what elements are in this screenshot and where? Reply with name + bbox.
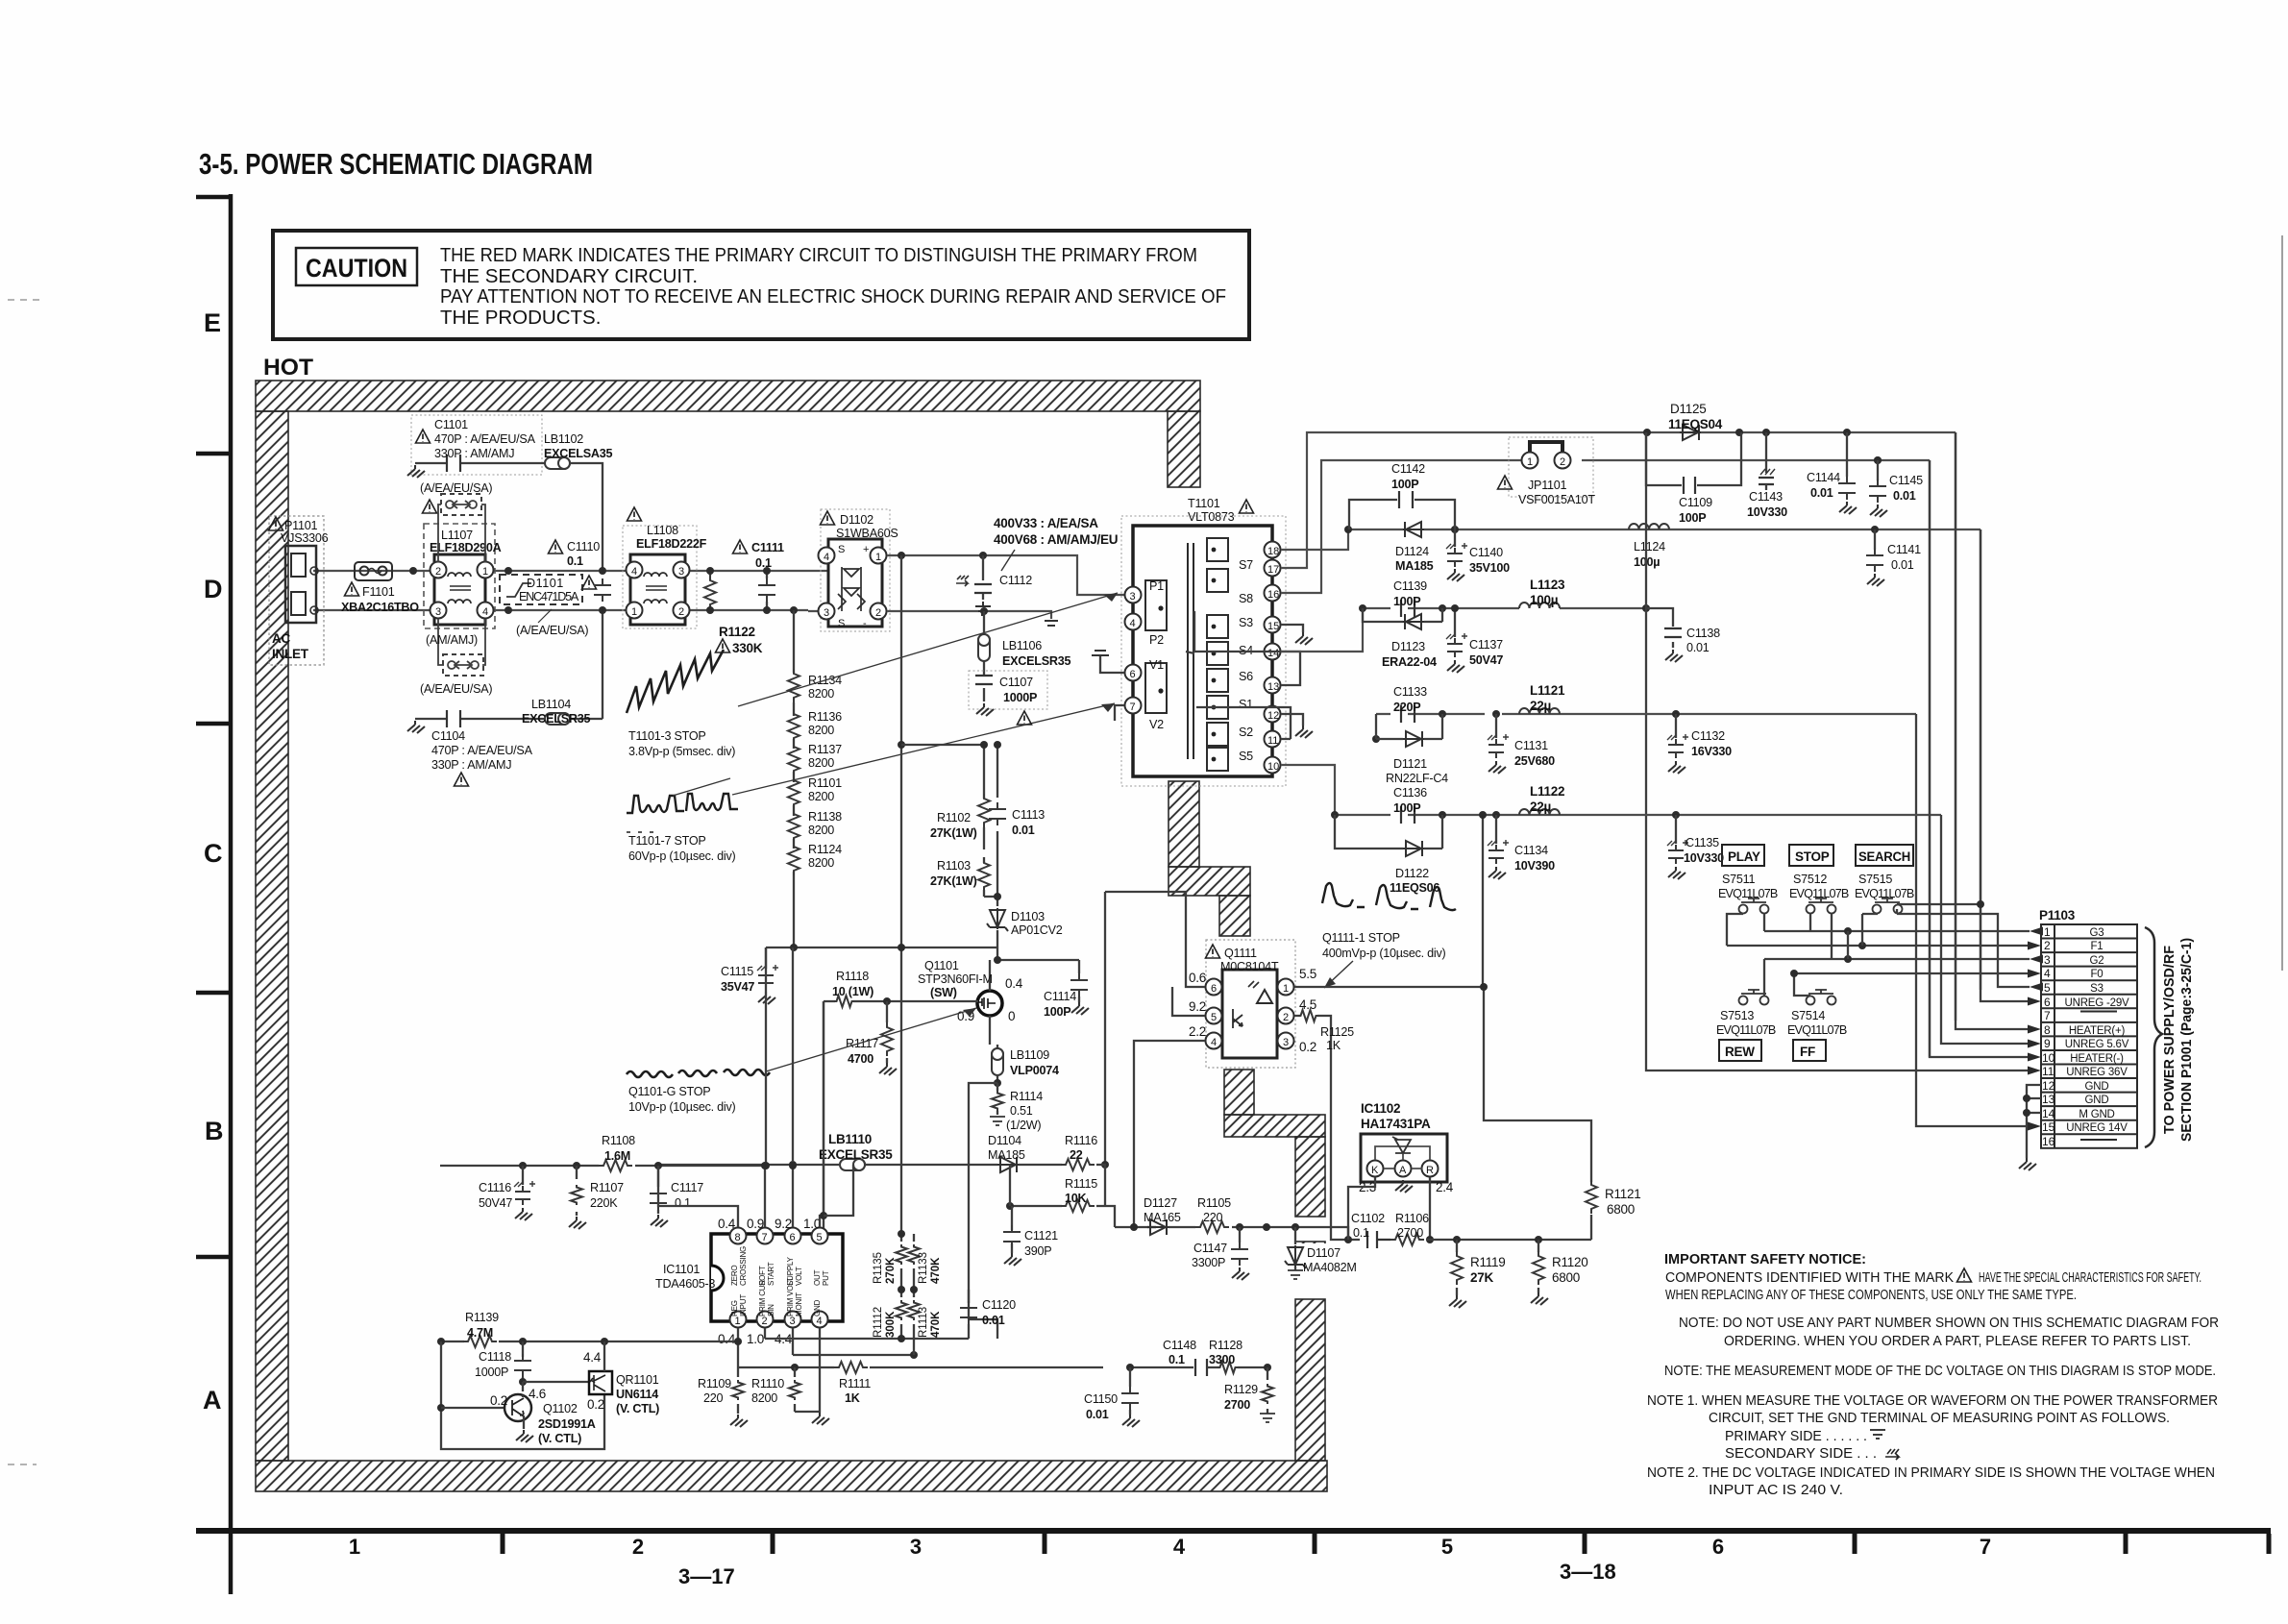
svg-text:PAY ATTENTION NOT TO RECEIVE A: PAY ATTENTION NOT TO RECEIVE AN ELECTRIC… [440,285,1226,308]
wire opto pin4 into hot area [1105,1041,1205,1227]
svg-text:NOTE: THE MEASUREMENT MODE OF: NOTE: THE MEASUREMENT MODE OF THE DC VOL… [1664,1364,2216,1379]
wire UNREG36V long vertical [1646,432,2030,1070]
wire top rail y986 [766,947,1079,960]
svg-text:MA185: MA185 [1395,559,1434,573]
svg-text:1.0: 1.0 [803,1217,821,1231]
svg-text:REG: REG [730,1300,739,1316]
svg-text:CIRCUIT, SET THE GND TERMINAL: CIRCUIT, SET THE GND TERMINAL OF MEASURI… [1709,1411,2170,1426]
svg-text:50V47: 50V47 [479,1196,512,1210]
resistor R1119 [1456,1240,1458,1295]
wire rail A +top from pin17 [1281,432,1956,568]
wire pin3 prim volt [793,1328,914,1355]
svg-text:R1108: R1108 [602,1134,635,1147]
svg-text:220: 220 [1203,1211,1223,1224]
connector brace [2145,927,2162,1147]
svg-text:0.2: 0.2 [587,1397,604,1412]
capacitor C1139 [1401,600,1415,617]
wire pin11 tap S2 [1196,707,1291,739]
wire pin5 up to gate rail [820,1001,824,1227]
svg-text:(V. CTL): (V. CTL) [616,1402,659,1415]
wire rail A turn down [1955,432,1956,1021]
resistors R1112 R1113 [901,1290,914,1349]
secondary winding boxes [1207,538,1228,771]
registration dashes [8,300,40,1464]
svg-text:C1118: C1118 [479,1350,511,1364]
svg-text:0.01: 0.01 [1686,641,1710,654]
svg-text:C1147: C1147 [1193,1242,1227,1255]
svg-text:3: 3 [2044,953,2051,967]
svg-text:10Vp-p (10µsec. div): 10Vp-p (10µsec. div) [628,1100,736,1114]
svg-text:ZERO: ZERO [730,1266,739,1286]
wire T1101 V1 ground [1100,655,1124,673]
svg-text:R1124: R1124 [808,843,842,856]
svg-text:S7515: S7515 [1858,873,1892,886]
svg-text:25V680: 25V680 [1514,754,1555,768]
svg-text:R1122: R1122 [719,625,755,639]
svg-text:R1129: R1129 [1224,1383,1258,1396]
svg-text:T1101-7 STOP: T1101-7 STOP [628,834,706,848]
diode D1104 [997,1157,1019,1172]
svg-text:M0C8104T: M0C8104T [1220,960,1279,973]
svg-text:L1124: L1124 [1634,540,1665,554]
inductor L1124 [1629,524,1669,529]
svg-text:VLT0873: VLT0873 [1188,510,1235,524]
svg-text:Q1102: Q1102 [543,1402,578,1415]
wire rail B vertical to pin10 [1930,460,2030,1057]
capacitor C1134 electrolytic [1495,815,1497,844]
svg-text:2: 2 [2044,939,2051,952]
caution inner label box [296,248,417,285]
svg-text:8200: 8200 [751,1391,777,1405]
svg-text:0.4: 0.4 [718,1217,736,1231]
pins left [1125,587,1142,603]
svg-text:XBA2C16TBO: XBA2C16TBO [341,601,419,614]
svg-text:CAUTION: CAUTION [306,254,407,283]
pointer line T1101-3 to pin 3 [738,593,1118,706]
svg-text:TO POWER SUPPLY/OSD/RF: TO POWER SUPPLY/OSD/RF [2162,946,2177,1134]
svg-text:0.01: 0.01 [982,1314,1005,1327]
connector P1101 (AC inlet) [269,516,324,665]
svg-text:R1125: R1125 [1320,1025,1354,1039]
wire rail C vertical to switches [1897,529,2030,1001]
svg-text:C1102: C1102 [1351,1212,1385,1225]
svg-text:1: 1 [1527,456,1533,468]
svg-text:THE SECONDARY CIRCUIT.: THE SECONDARY CIRCUIT. [440,265,698,287]
capacitor C1120 [968,1290,970,1303]
wire bottom row y1423 [738,1366,1209,1368]
resistor R1117 [886,1001,888,1063]
capacitor C1114 [1078,960,1080,973]
svg-text:D1104: D1104 [988,1134,1021,1147]
svg-text:FF: FF [1800,1045,1815,1059]
svg-text:C1144: C1144 [1807,471,1840,484]
svg-text:HAVE THE SPECIAL CHARACTERISTI: HAVE THE SPECIAL CHARACTERISTICS FOR SAF… [1979,1270,2202,1286]
svg-text:START: START [767,1262,775,1286]
svg-text:LB1110: LB1110 [828,1132,872,1146]
svg-text:R1115: R1115 [1065,1177,1097,1191]
svg-text:7: 7 [1130,701,1136,713]
svg-text:B: B [205,1117,224,1145]
svg-text:14: 14 [1267,648,1279,659]
wire switch to pin3 G2 [1764,959,2030,996]
wire pin7 up [764,1166,766,1227]
diode D1123 branch [1363,608,1442,622]
svg-text:17: 17 [1267,564,1279,576]
capacitor C1137 electrolytic [1454,608,1456,637]
svg-text:R1107: R1107 [590,1181,624,1194]
svg-text:4: 4 [631,566,637,578]
svg-text:P2: P2 [1149,633,1164,647]
svg-text:6800: 6800 [1607,1202,1635,1217]
svg-text:6: 6 [2044,996,2051,1009]
svg-text:C1101: C1101 [434,418,468,431]
svg-text:6800: 6800 [1552,1270,1580,1285]
svg-text:A: A [1399,1165,1407,1176]
svg-text:10V330: 10V330 [1747,505,1787,519]
svg-text:(A/EA/EU/SA): (A/EA/EU/SA) [420,682,492,696]
svg-text:PRIM VOLT: PRIM VOLT [786,1277,795,1316]
diode D1125 [1680,425,1701,440]
svg-text:ENC471D5A: ENC471D5A [519,590,579,603]
capacitor C1147 [1239,1227,1241,1243]
svg-text:4: 4 [1130,618,1136,629]
svg-text:HEATER(+): HEATER(+) [2069,1025,2126,1037]
svg-text:R1121: R1121 [1605,1187,1641,1201]
svg-text:11: 11 [2042,1065,2054,1078]
svg-text:C1117: C1117 [671,1181,703,1194]
svg-text:LB1106: LB1106 [1002,639,1042,652]
svg-text:C1145: C1145 [1889,474,1923,487]
svg-text:V1: V1 [1149,658,1164,672]
safety mark in notes [1957,1268,1972,1282]
resistor R1121 [1586,1180,1597,1214]
svg-text:S7512: S7512 [1793,873,1827,886]
wire rail C from pin18 [1281,529,1980,550]
capacitor C1143 electrolytic [1765,432,1767,473]
svg-text:15: 15 [1267,621,1279,632]
svg-text:C1107: C1107 [999,676,1033,689]
svg-text:11: 11 [1267,735,1278,747]
svg-text:4.6: 4.6 [529,1387,546,1401]
wire gate feed vertical [823,1001,824,1236]
svg-text:9: 9 [2044,1037,2051,1050]
resistor R1114 [996,1083,998,1115]
svg-text:R1138: R1138 [808,810,842,824]
optocoupler Q1111 [1206,940,1296,1068]
svg-text:NOTE 2. THE DC VOLTAGE INDICA: NOTE 2. THE DC VOLTAGE INDICATED IN PRIM… [1647,1465,2215,1481]
svg-text:C1132: C1132 [1691,729,1725,743]
svg-text:5: 5 [817,1232,823,1243]
svg-text:0.2: 0.2 [1299,1040,1316,1054]
svg-text:8200: 8200 [808,687,834,701]
svg-text:5: 5 [1441,1535,1453,1559]
svg-text:R1102: R1102 [937,811,971,824]
svg-text:S: S [838,544,845,555]
bead LB1110 [840,1159,865,1170]
svg-text:0.01: 0.01 [1086,1408,1109,1421]
wire right vertical from bridge plus down [898,552,905,559]
svg-text:IC1102: IC1102 [1361,1101,1400,1116]
wire rail F from pin10 [1281,765,1941,815]
svg-text:C1136: C1136 [1393,786,1427,800]
svg-text:Q1101-G STOP: Q1101-G STOP [628,1085,710,1098]
svg-text:EVQ11L07B: EVQ11L07B [1787,1023,1847,1037]
resistor R1139 [463,1336,497,1347]
svg-text:C1139: C1139 [1393,579,1427,593]
svg-text:PUT: PUT [822,1270,830,1286]
svg-text:2: 2 [678,606,684,618]
wire sense from LB1109 down [969,1083,997,1339]
svg-text:OUT: OUT [813,1269,822,1286]
svg-text:+: + [863,544,869,555]
pins right [1265,542,1281,558]
svg-text:0.1: 0.1 [755,556,772,570]
svg-text:UNREG -29V: UNREG -29V [2064,997,2129,1009]
svg-text:C1138: C1138 [1686,627,1720,640]
svg-text:(SW): (SW) [930,986,957,999]
bottom grid axis [196,1531,2271,1554]
svg-text:C1104: C1104 [431,729,465,743]
svg-text:A: A [203,1386,222,1415]
resistor R1116 [1061,1159,1095,1170]
svg-text:3: 3 [678,566,684,578]
svg-text:INLET: INLET [272,647,309,661]
svg-text:R1111: R1111 [839,1377,871,1390]
fuse F1101 [355,562,392,580]
svg-text:REW: REW [1725,1045,1755,1059]
capacitor C1113 [996,745,998,860]
capacitor C1141 [1874,529,1876,550]
secondary gnd glyph in notes [1885,1449,1899,1460]
switch S7513 [1739,990,1769,1005]
svg-text:ERA22-04: ERA22-04 [1382,655,1437,669]
resistor R1110 [794,1367,796,1412]
capacitor C1145 [1874,456,1882,464]
svg-text:LB1102: LB1102 [544,432,583,446]
resistor R1102 [978,794,990,827]
bridge rectifier D1102 [819,509,891,631]
svg-text:QR1101: QR1101 [616,1373,659,1387]
svg-text:F0: F0 [2090,969,2103,980]
svg-text:NOTE 1. WHEN MEASURE THE VOLT: NOTE 1. WHEN MEASURE THE VOLTAGE OR WAVE… [1647,1393,2218,1409]
resistor R1136 [788,709,800,743]
svg-text:7: 7 [2044,1009,2051,1022]
svg-text:0.01: 0.01 [1810,486,1833,500]
svg-text:L1121: L1121 [1530,683,1565,698]
svg-text:MA165: MA165 [1144,1211,1181,1224]
svg-text:0.1: 0.1 [1353,1226,1369,1240]
svg-text:220P: 220P [1393,701,1420,714]
varistor D1101 [500,575,582,604]
transformer T1101 [1121,516,1286,786]
capacitor C1112 [979,552,987,559]
svg-text:EXCELSR35: EXCELSR35 [1002,654,1070,668]
svg-text:4: 4 [1211,1037,1217,1048]
svg-text:100P: 100P [1393,595,1420,608]
capacitor C1135 electrolytic [1675,815,1677,844]
svg-text:220K: 220K [590,1196,618,1210]
capacitor C1132 electrolytic [1675,714,1677,738]
svg-text:C1143: C1143 [1749,490,1783,504]
resistors R1135 R1133 [901,1234,914,1290]
diode D1122 branch [1335,815,1442,849]
svg-text:L1123: L1123 [1530,578,1565,592]
line filter L1108 [623,526,697,628]
wire opto pin5 to hot [1172,987,1205,1016]
svg-text:8200: 8200 [808,724,834,737]
resistor R1101 [788,775,800,809]
capacitor C1117 [657,1166,659,1187]
svg-text:1: 1 [349,1535,360,1559]
svg-text:S7511: S7511 [1722,873,1755,886]
svg-text:3.8Vp-p (5msec. div): 3.8Vp-p (5msec. div) [628,745,735,758]
svg-text:STOP: STOP [1795,849,1830,864]
svg-text:(A/EA/EU/SA): (A/EA/EU/SA) [420,481,492,495]
svg-text:C1137: C1137 [1469,638,1503,652]
primary gnd glyph in notes [1870,1430,1885,1439]
capacitor C1144 [1846,432,1848,477]
SEARCH button [1856,845,1913,866]
svg-text:4: 4 [824,552,829,563]
svg-text:R1103: R1103 [937,859,971,873]
svg-text:11EQS04: 11EQS04 [1668,417,1723,431]
svg-text:100µ: 100µ [1530,593,1558,607]
bead LB1106 and cap C1107 [980,607,988,615]
wire branch to R1102 chain [898,741,905,749]
wire pin13 to S4 tap [1186,611,1300,685]
resistor R1105 [1195,1221,1229,1233]
svg-text:EXCELSR35: EXCELSR35 [819,1147,893,1162]
capacitor C1116 [522,1166,524,1185]
svg-text:60Vp-p (10µsec. div): 60Vp-p (10µsec. div) [628,849,736,863]
hatched HOT boundary frame [256,381,1327,1491]
inductor L1121 [1519,708,1560,714]
svg-text:2700: 2700 [1224,1398,1250,1412]
STOP button [1789,845,1833,866]
svg-text:VLP0074: VLP0074 [1010,1064,1059,1077]
wire R1139 row y1396 [441,1341,738,1342]
svg-text:1000P: 1000P [475,1366,508,1379]
svg-text:UNREG 36V: UNREG 36V [2066,1067,2128,1078]
svg-text:R1136: R1136 [808,710,842,724]
svg-text:S3: S3 [2090,983,2103,995]
capacitor C1140 electrolytic [1454,529,1456,547]
svg-text:0.2: 0.2 [490,1393,507,1408]
svg-text:(1/2W): (1/2W) [1006,1119,1041,1132]
svg-text:400mVp-p (10µsec. div): 400mVp-p (10µsec. div) [1322,947,1446,960]
svg-text:5: 5 [2044,981,2051,995]
wire switch to pin2 F1 [1727,914,2030,946]
svg-text:UNREG 5.6V: UNREG 5.6V [2065,1039,2129,1050]
svg-text:2: 2 [875,607,881,619]
wire bridge + output [887,555,1124,595]
svg-text:Q1111-1 STOP: Q1111-1 STOP [1322,931,1400,945]
svg-text:7: 7 [1980,1535,1991,1559]
capacitor C1131 electrolytic [1495,714,1497,738]
svg-text:C1115: C1115 [721,965,753,978]
svg-text:1: 1 [1283,983,1289,995]
svg-text:14: 14 [2042,1107,2055,1120]
caution text [440,244,1226,329]
svg-text:VOLT: VOLT [795,1267,803,1286]
svg-text:MONIT: MONIT [795,1292,803,1316]
svg-text:D1103: D1103 [1011,910,1045,923]
svg-text:R1119: R1119 [1470,1255,1506,1269]
resistor R1109 [737,1367,739,1414]
svg-text:C: C [204,839,223,868]
svg-text:2SD1991A: 2SD1991A [538,1417,596,1431]
diode D1124 [1403,522,1424,537]
primary winding V1/V2 [1145,663,1167,713]
IC1101 TDA4605-3 [711,1228,843,1328]
svg-text:D1122: D1122 [1395,867,1429,880]
svg-text:(V. CTL): (V. CTL) [538,1432,581,1445]
waveform T1101-3 sawtooth [627,650,724,713]
svg-text:1.0: 1.0 [747,1332,764,1346]
svg-text:NOTE: DO NOT USE ANY PART NUMB: NOTE: DO NOT USE ANY PART NUMBER SHOWN O… [1679,1316,2219,1331]
svg-text:10: 10 [1267,761,1279,773]
svg-text:C1121: C1121 [1024,1229,1058,1243]
wire switch to pin4 F0 [1794,973,2030,996]
resistor R1106 [1390,1234,1424,1245]
svg-text:STP3N60FI-M: STP3N60FI-M [918,972,993,986]
svg-text:D1125: D1125 [1670,402,1707,416]
resistor R1122 [704,576,716,609]
svg-text:470P : A/EA/EU/SA: 470P : A/EA/EU/SA [431,744,533,757]
svg-text:1: 1 [2044,925,2051,939]
svg-text:16: 16 [1267,589,1279,601]
capacitor C1102 [1367,1231,1390,1248]
svg-text:12: 12 [2042,1079,2055,1093]
svg-text:35V100: 35V100 [1469,561,1510,575]
svg-text:S7: S7 [1239,558,1253,572]
svg-text:22: 22 [1070,1148,1083,1162]
svg-text:3—17: 3—17 [678,1564,735,1588]
capacitor C1150 [1129,1367,1131,1387]
jumper below L1107 [438,619,485,676]
svg-text:G2: G2 [2090,955,2104,967]
svg-text:15: 15 [2042,1120,2055,1134]
resistor R1129 [1267,1367,1268,1414]
svg-text:GND: GND [813,1299,822,1316]
wire rail E from pin12 [1376,713,1916,715]
svg-text:4: 4 [1173,1535,1186,1559]
svg-text:V2: V2 [1149,718,1164,731]
svg-text:C1111: C1111 [751,541,784,554]
svg-text:8200: 8200 [808,856,834,870]
svg-text:6: 6 [1211,983,1217,995]
svg-text:R1112: R1112 [873,1307,884,1338]
svg-text:L1122: L1122 [1530,784,1564,799]
svg-text:470K: 470K [930,1311,942,1338]
svg-text:Q1101: Q1101 [924,959,959,972]
connector pin numbers [2042,925,2055,1148]
wire S7515 to S3 vertical [1862,914,2030,987]
resistor R1107 [576,1166,578,1216]
svg-text:F1: F1 [2090,941,2103,952]
capacitor C1110 across lines [594,578,611,602]
svg-text:C1134: C1134 [1514,844,1548,857]
svg-text:0.1: 0.1 [1169,1353,1185,1366]
wire R1108 to IC pin7 [657,1165,659,1167]
wire from LB1102 to AC line [570,463,603,719]
svg-text:390P: 390P [1024,1244,1051,1258]
wire pin6 up [792,1165,794,1227]
svg-text:4.7M: 4.7M [467,1326,493,1340]
wire rail D from pin14 [1281,608,1646,652]
svg-text:EVQ11L07B: EVQ11L07B [1716,1023,1776,1037]
primary winding P1/P2 [1145,580,1167,630]
